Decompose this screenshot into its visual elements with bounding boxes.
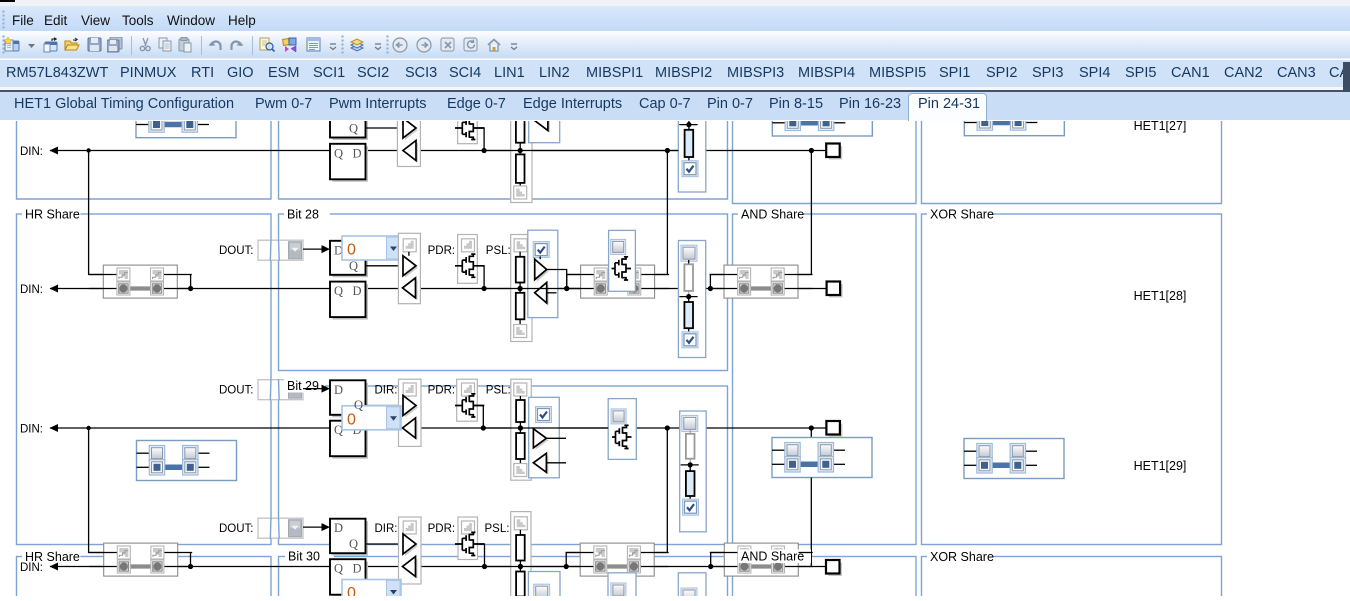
DIN arrowhead pin30: [50, 562, 59, 570]
pull icon pin27: [514, 186, 527, 199]
svg-text:PDR:: PDR:: [428, 384, 455, 396]
wire AND pad widget stub to share column: [799, 551, 812, 553]
svg-text:DIN:: DIN:: [20, 284, 43, 296]
AND share gate transistor box pin28: [609, 230, 636, 291]
group box XOR Share (pins 30/31): [922, 556, 1222, 598]
pull group pin29: [511, 379, 532, 480]
svg-text:Q: Q: [334, 146, 343, 160]
pull icon2 pin29: [514, 463, 527, 476]
svg-text:DOUT:: DOUT:: [219, 522, 254, 534]
group box Bit 27 clipped: [279, 119, 728, 199]
wire HR mux pin30 output jog: [190, 552, 192, 566]
PSL input buffer pin27 (clipped): [534, 109, 550, 132]
DOUT value dropdown pin30 (clipped): [342, 579, 401, 601]
wire FF Q to DIR buffer pin30: [366, 543, 404, 545]
flip-flop DIN pin29: [333, 423, 369, 459]
wire HR vertical pin29 to pin30 HR mux: [89, 428, 117, 553]
flip-flop DOUT pin27 (clipped): [333, 105, 369, 140]
PDR mode icon pin29: [462, 383, 475, 396]
wire PSL output to net28: [547, 269, 567, 288]
wire PSL output stub pin29: [546, 437, 566, 439]
wire net HET1[28] DIN line: [50, 287, 827, 289]
pull mode icon pin28: [514, 238, 527, 251]
pull strength checkbox pin28 (checked): [682, 331, 698, 347]
svg-text:Bit 29: Bit 29: [287, 379, 319, 393]
pull-up resistor pin28: [519, 251, 521, 256]
svg-text:AND Share: AND Share: [741, 207, 804, 221]
pull strength resistor pin27 (active): [688, 124, 690, 129]
wire net27 to pin28 AND pad widget: [799, 150, 812, 274]
output pad HET1[29]: [829, 423, 843, 437]
AND share mux pins 29/30 (enabled): [772, 437, 872, 477]
pull strength junction line pin29: [681, 463, 699, 465]
pull-down resistor pin30: [519, 566, 521, 571]
label Bit 29: [284, 379, 325, 393]
svg-text:D: D: [334, 382, 343, 396]
DIR buffer group pin29: [399, 379, 422, 446]
svg-text:Bit 30: Bit 30: [288, 549, 320, 563]
svg-text:Bit 28: Bit 28: [287, 207, 319, 221]
output pad HET1[28]: [829, 284, 843, 298]
svg-text:DIR:: DIR:: [375, 522, 398, 534]
group box XOR Share (pins 28/29): [922, 214, 1222, 545]
AND share gate mux pin27/28: [581, 265, 655, 298]
pull strength resistor pin29 (active): [689, 464, 691, 470]
pull group pin28: [511, 234, 532, 341]
svg-text:HET1[27]: HET1[27]: [1134, 121, 1187, 133]
pull group pin30: [511, 511, 531, 598]
XOR share mux pins 26/27 (clipped): [964, 95, 1064, 135]
DOUT value dropdown pin29: [342, 405, 401, 429]
group box Bit 28: [279, 214, 728, 371]
wire HR vertical pin27 to pin28 HR mux: [89, 150, 117, 274]
wire net HET1[27] DIN line: [50, 149, 827, 151]
pull strength resistor pin28 (inactive): [688, 260, 690, 264]
menu bar: [0, 6, 1350, 31]
pull strength junction line pin28: [679, 295, 697, 297]
flip-flop DOUT pin28: [333, 243, 369, 277]
svg-text:PSL:: PSL:: [486, 245, 511, 257]
pull strength enable checkbox pin30 (clipped): [681, 588, 697, 601]
DIR buffer group pin28: [398, 233, 420, 303]
wire HR mux pin28 output jog: [190, 274, 192, 288]
group box HR Share (pins 30/31): [17, 556, 272, 598]
tall pull-select box pin29: [680, 411, 707, 532]
DIR output buffer pin27: [405, 120, 418, 140]
wire net27 to pin28 AND gate widget: [655, 150, 668, 274]
junction net27 / HR vertical: [86, 148, 90, 152]
group box AND Share (pins 28/29): [733, 214, 917, 545]
wire net29 to pin30 AND gate widget: [655, 428, 668, 553]
PSL input stub pin29: [546, 461, 566, 463]
flip-flop DIN pin28: [333, 284, 369, 320]
pull strength resistor pin29 (inactive): [689, 430, 691, 434]
HR share input mux pin30: [104, 543, 178, 576]
DIR output buffer pin29: [405, 397, 418, 417]
PSL input buffer pin29: [535, 455, 548, 474]
junction net30 / pull: [518, 563, 523, 568]
PSL checkbox stub pin28: [539, 256, 541, 259]
PSL select box pin29: [529, 397, 560, 478]
PDR transistor pin29: [455, 393, 484, 416]
junction net28 / AND pad widget: [708, 285, 713, 290]
junction net28 / HR mux: [188, 285, 193, 290]
wire FF Q to DIR buffer pin29: [366, 404, 404, 406]
wire FF Q to DIR buffer pin28: [366, 264, 404, 266]
HR share mux pins 28/29 (enabled): [137, 440, 237, 480]
junction net27 / AND-share gate drop: [665, 147, 670, 152]
junction net27 / PDR: [482, 147, 487, 152]
wire DOUT selector to flip-flop pin30: [303, 526, 322, 528]
window chrome: [0, 0, 1350, 6]
wire net30 to AND pad widget inputs: [711, 552, 725, 566]
junction net29 / HR vertical: [86, 425, 90, 429]
svg-text:Q: Q: [349, 121, 358, 135]
DIN arrowhead pin29: [50, 424, 59, 432]
DOUT source selector pin29 (disabled): [258, 379, 303, 399]
DIR mode icon pin30: [403, 521, 416, 534]
svg-text:Q: Q: [354, 398, 363, 412]
DIR input buffer pin30: [405, 558, 418, 578]
svg-text:D: D: [352, 284, 361, 298]
svg-text:DIR:: DIR:: [375, 384, 398, 396]
PSL output buffer pin29: [535, 430, 548, 449]
pull-down resistor pin28: [519, 288, 521, 292]
AND gate transistor pin29: [612, 425, 632, 448]
DIR input buffer pin28: [405, 279, 418, 299]
pull strength resistor pin28 (active): [688, 296, 690, 301]
svg-text:0: 0: [347, 585, 356, 596]
label Bit 30: [285, 549, 334, 563]
PDR mode icon pin28: [462, 238, 475, 251]
PSL group pin27 (clipped): [529, 104, 560, 142]
tall pull-select box pin30 (clipped): [678, 572, 706, 598]
junction net27 / pull: [518, 147, 523, 152]
junction net29 / AND gate drop: [665, 425, 670, 430]
pull enable checkbox pin27 (checked): [682, 160, 698, 176]
tall pull-select box pin27 (clipped): [678, 104, 706, 192]
wire net28 over pull and PSL groups: [484, 287, 580, 289]
pull strength enable checkbox pin28 (empty): [681, 245, 697, 261]
junction net30 / AND gate widget: [564, 563, 569, 568]
group box HR Share (pins 26/27) clipped: [17, 119, 272, 199]
svg-text:XOR Share: XOR Share: [930, 207, 994, 221]
PSL enable checkbox pin29 (checked): [536, 406, 552, 422]
wire net29 over pull and PSL groups: [483, 427, 608, 429]
wire DOUT selector to flip-flop pin29: [303, 387, 322, 389]
DIN arrowhead pin28: [50, 284, 59, 292]
DIR icon stub pin28: [408, 251, 410, 255]
pull-up resistor pin27 (clipped): [519, 142, 521, 150]
svg-text:Q: Q: [349, 258, 358, 272]
DIR mode icon pin28: [403, 238, 416, 251]
group box AND Share (pins 26/27) clipped: [733, 119, 917, 203]
junction net30 / HR mux: [188, 563, 193, 568]
AND gate transistor pin28: [612, 256, 632, 279]
PSL input buffer pin28: [537, 284, 549, 305]
pull group pin27 (clipped): [511, 104, 532, 202]
DOUT value dropdown pin28: [342, 236, 401, 260]
group box Bit 30: [279, 556, 728, 598]
AND share mux pins 26/27 (clipped): [772, 96, 872, 136]
pull strength junction line pin27: [679, 123, 697, 125]
svg-text:PDR:: PDR:: [428, 245, 455, 257]
group border over DOUT selector pin28: [269, 239, 272, 260]
junction net28 / PDR: [482, 285, 487, 290]
PDR transistor pin27 (clipped): [455, 116, 484, 139]
DIR output buffer pin30: [405, 536, 418, 556]
junction net29 / pull: [518, 425, 523, 430]
DIR buffer group pin30: [399, 517, 422, 584]
PDR group pin28: [458, 234, 478, 283]
XOR share mux pins 28/29 (enabled): [964, 438, 1064, 478]
junction net28 / PSL output: [564, 285, 569, 290]
svg-text:HR Share: HR Share: [25, 207, 80, 221]
pull-down resistor pin29: [519, 428, 521, 433]
pull mode icon pin30: [514, 516, 527, 529]
DIR input buffer pin27: [405, 142, 418, 162]
pull mode icon pin29: [514, 383, 527, 396]
wire PDR drain to net29: [473, 405, 483, 428]
PDR transistor pin28: [455, 254, 484, 277]
peripheral tab row: [0, 60, 1350, 87]
PDR mode icon pin30: [462, 521, 475, 534]
pull-down resistor pin27: [519, 150, 521, 154]
svg-text:PDR:: PDR:: [428, 522, 455, 534]
label AND Share 30/31: [738, 549, 811, 563]
wire net30 over pull group: [485, 565, 567, 567]
HET1 sub-tab row: [0, 92, 1350, 120]
group box Bit 29: [279, 386, 728, 545]
AND share gate transistor box pin30 (clipped): [608, 572, 636, 598]
wire PDR drain to net27: [473, 128, 484, 151]
svg-text:PSL:: PSL:: [485, 522, 510, 534]
PDR group pin30: [458, 517, 478, 560]
svg-text:DOUT:: DOUT:: [219, 384, 254, 396]
output pad HET1[27]: [829, 146, 843, 160]
svg-text:DIN:: DIN:: [20, 423, 43, 435]
wire AND share mux 29/30 down to net30: [810, 477, 812, 566]
svg-text:0: 0: [347, 241, 356, 258]
svg-text:D: D: [352, 561, 361, 575]
output pad HET1[30]: [829, 562, 843, 576]
DIR mode icon pin29: [403, 383, 416, 396]
PSL enable checkbox pin28 (checked): [533, 241, 549, 257]
wire net30 to AND gate widget inputs: [566, 552, 594, 566]
svg-text:D: D: [334, 521, 343, 535]
DIR output buffer pin28: [405, 257, 418, 277]
wire PDR drain to net30: [473, 544, 484, 567]
PSL select box pin28: [528, 230, 558, 317]
pull icon2 pin28: [514, 324, 527, 337]
wire net HET1[30] DIN line: [50, 565, 827, 567]
PSL select box pin30 (clipped): [528, 571, 560, 598]
svg-text:HET1[29]: HET1[29]: [1134, 459, 1187, 473]
junction net29 / PDR: [481, 425, 486, 430]
HR share input mux pin28: [103, 265, 177, 298]
tall pull-select box pin28: [678, 240, 705, 357]
PSL output buffer pin28: [537, 261, 549, 282]
svg-text:DIN:: DIN:: [20, 562, 43, 574]
svg-text:Q: Q: [334, 284, 343, 298]
PDR group pin29: [457, 379, 478, 421]
AND share pad mux pin29/30: [724, 543, 798, 576]
wire net28 to AND pad widget inputs: [710, 274, 724, 288]
DOUT source selector pin28 (disabled): [258, 240, 303, 260]
pull-up resistor pin30: [519, 529, 521, 534]
AND share pad mux pin27/28: [724, 265, 798, 298]
flip-flop DIN pin30: [333, 561, 369, 597]
AND share gate mux pin29/30: [580, 543, 654, 576]
junction net30 / PDR: [482, 563, 487, 568]
junction net30 / AND pad widget: [708, 563, 713, 568]
AND gate enable icon pin29: [611, 408, 626, 423]
schematic content: [0, 121, 1350, 596]
svg-text:PSL:: PSL:: [486, 384, 511, 396]
wire DOUT selector to flip-flop pin28: [303, 248, 322, 250]
flip-flop DIN pin27: [333, 146, 369, 182]
junction net29 / AND share mux: [809, 425, 814, 430]
wire net27 over pull group: [484, 149, 678, 151]
DIR icon stub pin29: [408, 395, 410, 397]
pull strength checkbox pin29 (checked): [683, 499, 699, 515]
DIR buffer group pin27 (clipped): [397, 104, 420, 166]
wire PDR drain to net28: [473, 265, 484, 288]
wire net28 to AND gate widget inputs: [567, 274, 595, 288]
svg-text:DIN:: DIN:: [20, 146, 43, 158]
PDR group pin27 (clipped): [458, 104, 478, 143]
DOUT source selector pin30 (disabled): [258, 518, 303, 538]
wire FF Q to DIR buffer pin27: [366, 127, 404, 129]
group border over DOUT selector pin30: [269, 517, 272, 538]
PSL input stub pin28: [547, 291, 557, 293]
PDR transistor pin30: [455, 532, 484, 555]
PSL enable checkbox pin30 (clipped): [534, 584, 550, 600]
svg-text:0: 0: [347, 411, 356, 428]
pull-up resistor pin29: [519, 396, 521, 400]
svg-text:DOUT:: DOUT:: [219, 245, 254, 257]
group box AND Share (pins 30/31): [733, 556, 917, 598]
toolbar: [0, 31, 1350, 59]
wire net29 down to AND share mux 29/30: [810, 428, 812, 438]
svg-text:AND Share: AND Share: [741, 549, 804, 563]
svg-text:D: D: [352, 146, 361, 160]
DIR input buffer pin29: [405, 420, 418, 440]
svg-text:HET1[28]: HET1[28]: [1134, 289, 1187, 303]
junction net28 / pull: [518, 285, 523, 290]
AND gate enable icon pin28: [611, 239, 626, 254]
svg-text:Q: Q: [334, 561, 343, 575]
group box HR Share (pins 28/29): [17, 214, 272, 545]
DIN arrowhead pin27: [50, 146, 59, 154]
junction net27 / pad drop: [809, 147, 814, 152]
svg-text:XOR Share: XOR Share: [930, 550, 994, 564]
HR share mux pins 26/27 (clipped): [136, 97, 236, 137]
AND share gate transistor box pin29: [608, 398, 636, 459]
svg-text:Q: Q: [349, 537, 358, 551]
flip-flop DOUT pin29: [333, 382, 369, 417]
wire net HET1[29] DIN line: [50, 427, 827, 429]
flip-flop DOUT pin30: [333, 521, 369, 556]
group box XOR Share (pins 26/27) clipped: [922, 119, 1222, 203]
group border over DOUT selector pin29: [269, 379, 272, 400]
pull strength enable checkbox pin29 (empty): [682, 415, 698, 431]
AND gate enable icon pin30 (clipped): [611, 583, 626, 598]
